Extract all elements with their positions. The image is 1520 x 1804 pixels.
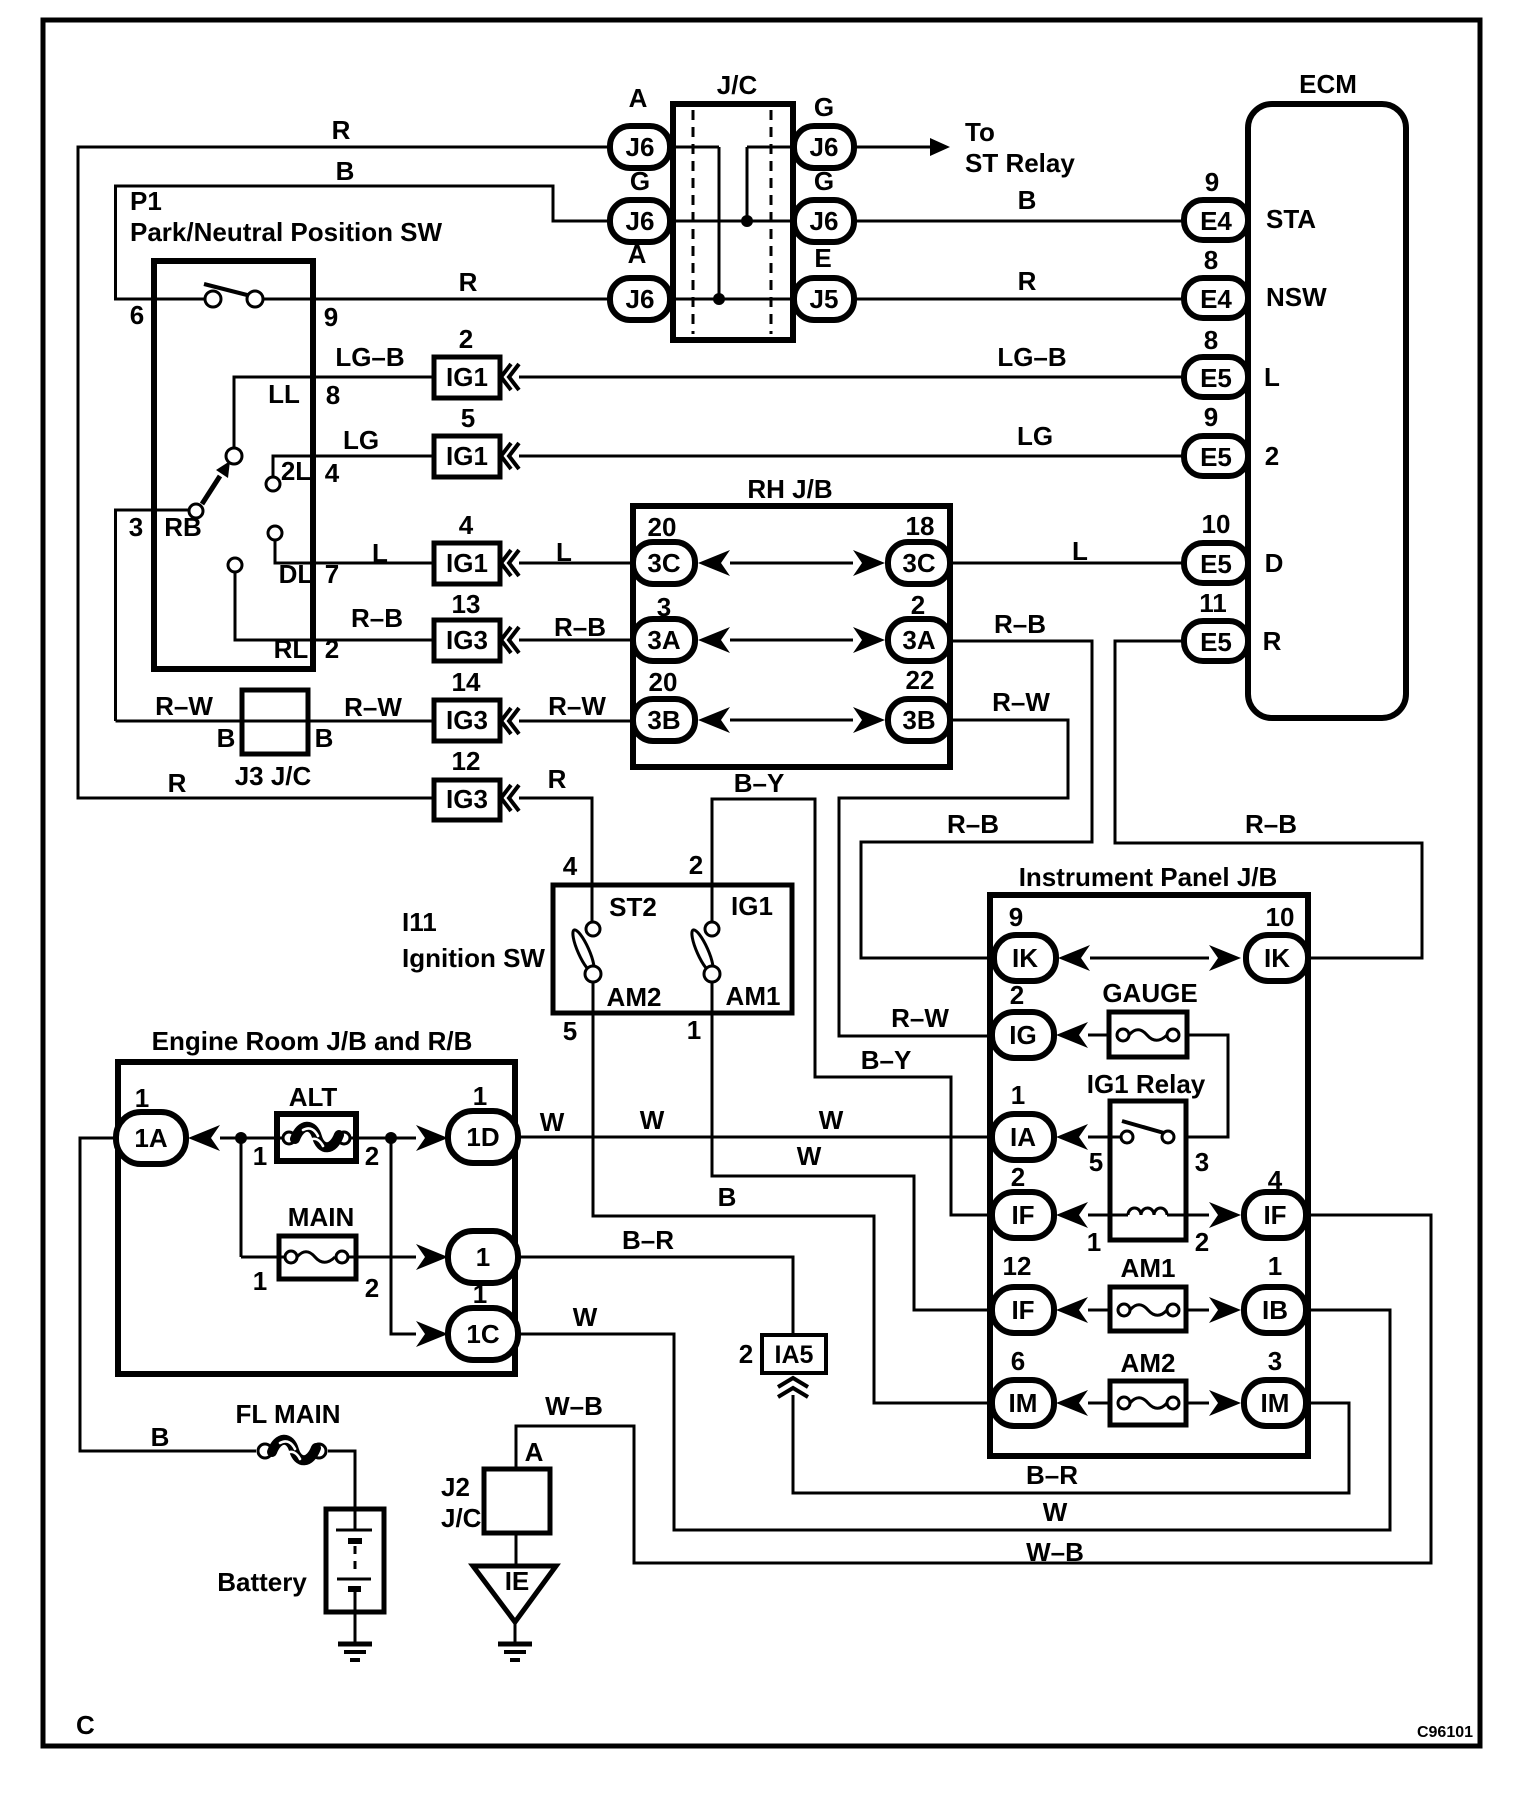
svg-text:J6: J6 (810, 132, 839, 162)
ground battery (338, 1644, 372, 1660)
wire R-W: 3B to IG (839, 687, 1068, 1036)
svg-text:ST Relay: ST Relay (965, 148, 1075, 178)
svg-text:2: 2 (911, 590, 925, 620)
svg-text:J/C: J/C (717, 70, 758, 100)
svg-text:B: B (336, 156, 355, 186)
svg-text:R–W: R–W (155, 691, 213, 721)
wire ALT to 1D (350, 1137, 416, 1140)
svg-text:P1: P1 (130, 186, 162, 216)
svg-text:IE: IE (505, 1566, 530, 1596)
wire R row from IG3 12 to ignition ST2 (519, 798, 592, 922)
svg-text:B: B (151, 1422, 170, 1452)
svg-text:1D: 1D (466, 1122, 499, 1152)
connector J5 (E) right row3 (794, 243, 854, 320)
wire R-B: 3A to IK 9 (861, 609, 1092, 958)
svg-text:J/C: J/C (441, 1503, 482, 1533)
wire B: AM2 to IM 6 (563, 982, 992, 1403)
svg-text:2: 2 (459, 324, 473, 354)
svg-text:8: 8 (1204, 245, 1218, 275)
svg-text:ALT: ALT (289, 1082, 338, 1112)
connector 3A (3) left (633, 592, 695, 661)
svg-text:LG–B: LG–B (997, 342, 1066, 372)
wire R: J5 E to E4 NSW (854, 266, 1184, 299)
svg-text:W–B: W–B (545, 1391, 603, 1421)
svg-text:LG: LG (1017, 421, 1053, 451)
svg-text:12: 12 (452, 746, 481, 776)
svg-text:10: 10 (1266, 902, 1295, 932)
svg-text:2: 2 (1010, 980, 1024, 1010)
svg-text:Instrument Panel J/B: Instrument Panel J/B (1019, 862, 1278, 892)
svg-text:C96101: C96101 (1417, 1724, 1473, 1741)
svg-text:IA: IA (1010, 1122, 1036, 1152)
connector J6 (G) right row2 (794, 166, 854, 242)
connector J6 (G) left row2 (610, 166, 670, 242)
svg-text:2: 2 (1011, 1162, 1025, 1192)
svg-text:NSW: NSW (1266, 282, 1327, 312)
svg-text:J6: J6 (810, 206, 839, 236)
arrow left IF12 row (1056, 1297, 1088, 1323)
svg-text:B–Y: B–Y (861, 1045, 912, 1075)
svg-text:IA5: IA5 (775, 1341, 814, 1369)
svg-text:Engine Room J/B and R/B: Engine Room J/B and R/B (152, 1026, 473, 1056)
svg-text:IG1: IG1 (446, 548, 488, 578)
wire W: 1D to IA (518, 1105, 992, 1137)
wire IM to AM2 fuse (1088, 1402, 1110, 1405)
svg-text:ST2: ST2 (609, 892, 657, 922)
svg-text:R–B: R–B (994, 609, 1046, 639)
svg-text:W: W (1043, 1497, 1068, 1527)
svg-text:R–W: R–W (891, 1003, 949, 1033)
svg-text:LG–B: LG–B (335, 342, 404, 372)
svg-text:W–B: W–B (1026, 1537, 1084, 1567)
svg-text:1: 1 (473, 1081, 487, 1111)
svg-text:4: 4 (459, 510, 474, 540)
connector 1A (1) (116, 1083, 186, 1164)
junction connector J/C box (673, 70, 793, 340)
svg-text:R: R (548, 764, 567, 794)
svg-text:R–B: R–B (1245, 809, 1297, 839)
connector E5 (10) D (1184, 509, 1283, 583)
svg-text:AM1: AM1 (1121, 1253, 1176, 1283)
svg-text:RH J/B: RH J/B (747, 474, 832, 504)
arrow right 3B row (853, 707, 885, 733)
arrow left IA row (1056, 1124, 1088, 1150)
connector E5 (8) L (1184, 325, 1280, 397)
wire 1A to FL MAIN and battery (80, 1138, 256, 1452)
svg-text:R: R (1263, 626, 1282, 656)
svg-text:2: 2 (1265, 441, 1279, 471)
svg-text:B–R: B–R (622, 1225, 674, 1255)
connector IG1 (4) (313, 510, 572, 584)
wire W: 1C to IB (518, 1302, 1390, 1530)
svg-text:AM1: AM1 (726, 981, 781, 1011)
svg-text:IF: IF (1263, 1200, 1286, 1230)
P1 contact DL (268, 526, 339, 589)
svg-text:11: 11 (1199, 588, 1227, 618)
connector IM (6) (992, 1346, 1054, 1426)
wire 1A row to ALT fuse (220, 1137, 283, 1140)
svg-text:RL: RL (274, 634, 309, 664)
connector J6 (G) right row1 to ST relay (794, 92, 854, 168)
instrument panel J/B box (990, 862, 1308, 1456)
connector 3B (22) right (888, 665, 950, 741)
connector 3C (18) right (888, 511, 950, 584)
svg-text:2: 2 (1195, 1227, 1209, 1257)
ECM box (1248, 69, 1406, 718)
svg-text:R–W: R–W (548, 691, 606, 721)
svg-text:LL: LL (268, 379, 300, 409)
P1 contact 2L (266, 456, 340, 491)
svg-text:C: C (76, 1710, 95, 1740)
wire MAIN row (241, 1256, 285, 1259)
svg-text:E4: E4 (1200, 284, 1232, 314)
svg-text:GAUGE: GAUGE (1102, 978, 1197, 1008)
svg-text:G: G (630, 166, 650, 196)
connector 1D (1) (448, 1081, 518, 1163)
svg-text:G: G (814, 166, 834, 196)
svg-text:FL MAIN: FL MAIN (236, 1399, 341, 1429)
svg-text:W: W (819, 1105, 844, 1135)
svg-text:L: L (1264, 362, 1280, 392)
svg-text:20: 20 (648, 512, 677, 542)
P1 contact RL (228, 558, 339, 664)
wire IE to ground (514, 1622, 517, 1644)
wire IK internal (1090, 957, 1209, 960)
connector IA5 (2) (739, 1335, 826, 1397)
connector IB (1) (1244, 1251, 1306, 1333)
svg-text:4: 4 (325, 458, 340, 488)
RH J/B box (633, 474, 950, 767)
fusible link ALT (253, 1082, 379, 1171)
wire 3B internal (730, 719, 853, 722)
connector IK (10) (1246, 902, 1308, 981)
svg-text:8: 8 (326, 380, 340, 410)
svg-text:1: 1 (473, 1279, 487, 1309)
svg-text:IK: IK (1264, 943, 1290, 973)
svg-text:1: 1 (1087, 1227, 1101, 1257)
IG1 contact (705, 891, 773, 936)
relay coil (1087, 1208, 1209, 1257)
arrow left IK row (1058, 945, 1090, 971)
svg-text:5: 5 (1089, 1147, 1103, 1177)
arrow right 1C (416, 1321, 448, 1347)
P1 NSW switch contacts (130, 284, 338, 332)
svg-text:IG3: IG3 (446, 705, 488, 735)
ground connector IE triangle (473, 1566, 556, 1622)
svg-text:W: W (797, 1141, 822, 1171)
svg-text:J6: J6 (626, 132, 655, 162)
svg-text:IG3: IG3 (446, 784, 488, 814)
connector E4 (9) STA (1184, 167, 1316, 240)
fuse AM1 (1110, 1253, 1186, 1331)
svg-text:3: 3 (657, 592, 671, 622)
P1 rotary selector arrow RB (116, 461, 231, 721)
connector IF (12) (992, 1251, 1054, 1333)
wire row3: P1 pin 9 to J6 A (262, 298, 610, 301)
wire J2 to IE ground (515, 1533, 518, 1566)
wire down from ALT node to MAIN (240, 1138, 243, 1257)
connector 1C (1) (448, 1279, 518, 1360)
svg-text:3: 3 (1268, 1346, 1282, 1376)
connector IF (2) (992, 1162, 1054, 1238)
fuse AM2 (1110, 1348, 1186, 1425)
svg-text:1C: 1C (466, 1319, 499, 1349)
svg-text:Ignition SW: Ignition SW (402, 943, 545, 973)
svg-text:G: G (814, 92, 834, 122)
svg-text:R: R (1018, 266, 1037, 296)
svg-text:9: 9 (1205, 167, 1219, 197)
junction node (385, 1132, 397, 1144)
junction node (235, 1132, 247, 1144)
wire R-B: E5 R to IK 10 (1115, 641, 1422, 958)
svg-text:E5: E5 (1200, 442, 1232, 472)
wire AM2 to IM right (1186, 1402, 1209, 1405)
svg-text:IG1: IG1 (731, 891, 773, 921)
svg-text:14: 14 (452, 667, 481, 697)
arrow left IG row (1056, 1022, 1088, 1048)
svg-text:2: 2 (689, 850, 703, 880)
svg-text:J5: J5 (810, 284, 839, 314)
arrow right 3C row (853, 550, 885, 576)
arrow left IF2 row (1056, 1202, 1088, 1228)
wire B top: J6 G row to P1 pin 6 (116, 156, 611, 299)
AM1 pivot contact (704, 966, 780, 1011)
svg-text:A: A (525, 1437, 544, 1467)
svg-text:L: L (1072, 536, 1088, 566)
svg-text:2L: 2L (281, 456, 311, 486)
svg-text:L: L (372, 538, 388, 568)
wire B: J6 G right to E4 STA (854, 185, 1184, 221)
connector IG3 (14) (434, 667, 606, 741)
svg-text:9: 9 (324, 302, 338, 332)
svg-text:R–B: R–B (351, 603, 403, 633)
svg-text:4: 4 (1268, 1165, 1283, 1195)
svg-text:5: 5 (563, 1016, 577, 1046)
ground IE (498, 1644, 532, 1660)
connector 3B (20) left (633, 667, 695, 741)
ST2 contact (586, 892, 657, 936)
svg-text:1: 1 (253, 1141, 267, 1171)
svg-text:2: 2 (365, 1273, 379, 1303)
svg-text:E5: E5 (1200, 363, 1232, 393)
svg-text:B: B (718, 1182, 737, 1212)
svg-text:A: A (629, 83, 648, 113)
svg-text:E: E (814, 243, 831, 273)
svg-text:IF: IF (1011, 1295, 1034, 1325)
svg-text:W: W (540, 1107, 565, 1137)
svg-text:ECM: ECM (1299, 69, 1357, 99)
svg-text:5: 5 (461, 403, 475, 433)
svg-text:I11: I11 (402, 907, 437, 937)
svg-text:B: B (1018, 185, 1037, 215)
engine room J/B box (118, 1026, 515, 1374)
svg-text:2: 2 (739, 1339, 753, 1369)
svg-text:IK: IK (1012, 943, 1038, 973)
IG1/AM1 lever (688, 928, 717, 974)
svg-text:3B: 3B (902, 705, 935, 735)
svg-text:B: B (217, 723, 236, 753)
svg-text:10: 10 (1202, 509, 1231, 539)
arrow left 3C row (698, 550, 730, 576)
svg-text:3A: 3A (647, 625, 680, 655)
connector IG (2) (992, 980, 1054, 1058)
svg-text:1A: 1A (134, 1123, 167, 1153)
svg-text:IG1: IG1 (446, 441, 488, 471)
svg-text:13: 13 (452, 589, 481, 619)
svg-text:R: R (332, 115, 351, 145)
svg-text:MAIN: MAIN (288, 1202, 354, 1232)
arrow left 3A row (698, 627, 730, 653)
svg-text:IG3: IG3 (446, 625, 488, 655)
svg-text:DL: DL (279, 559, 314, 589)
arrow right IM3 row (1209, 1390, 1241, 1416)
connector 3A (2) right (888, 590, 950, 661)
wire IA to relay (1088, 1136, 1121, 1139)
svg-text:B–R: B–R (1026, 1460, 1078, 1490)
svg-text:RB: RB (164, 512, 202, 542)
svg-text:1: 1 (687, 1015, 701, 1045)
svg-text:8: 8 (1204, 325, 1218, 355)
svg-text:J2: J2 (441, 1472, 470, 1502)
svg-text:J3 J/C: J3 J/C (235, 761, 312, 791)
arrow right 1D (416, 1125, 448, 1151)
wire 3A internal (730, 639, 853, 642)
connector E5 (11) R (1184, 588, 1282, 661)
svg-text:To: To (965, 117, 995, 147)
wire AM1 to IB (1186, 1309, 1209, 1312)
connector IA (1) (992, 1080, 1054, 1160)
svg-text:R–B: R–B (554, 612, 606, 642)
svg-text:LG: LG (343, 425, 379, 455)
svg-text:E5: E5 (1200, 627, 1232, 657)
svg-text:STA: STA (1266, 204, 1316, 234)
svg-text:3C: 3C (647, 548, 680, 578)
svg-text:A: A (628, 239, 647, 269)
svg-text:E5: E5 (1200, 549, 1232, 579)
arrow right 3A row (853, 627, 885, 653)
svg-text:9: 9 (1009, 902, 1023, 932)
wire LG row to E5 2 (519, 421, 1184, 456)
svg-text:4: 4 (563, 851, 578, 881)
svg-text:E4: E4 (1200, 206, 1232, 236)
svg-text:B–Y: B–Y (734, 768, 785, 798)
svg-text:22: 22 (906, 665, 935, 695)
connector IG1 (2) (313, 324, 519, 398)
connector E5 (9) 2 (1184, 402, 1279, 476)
svg-text:AM2: AM2 (1121, 1348, 1176, 1378)
connector IM (3) (1244, 1346, 1306, 1426)
wire B-Y: ignition IG1 to IF 2 (689, 768, 992, 1215)
wire W: AM1 to IF 12 (687, 982, 992, 1310)
connector IK (9) (994, 902, 1056, 981)
svg-text:IF: IF (1011, 1200, 1034, 1230)
J/C internal wires (670, 147, 794, 305)
svg-text:IB: IB (1262, 1295, 1288, 1325)
fuse MAIN (253, 1202, 379, 1303)
wire R-W row to RH J/B 3B (519, 720, 633, 723)
wire W-B: IF 4 to J2 J/C (516, 1215, 1431, 1567)
arrow right IK row (1209, 945, 1241, 971)
svg-text:R–W: R–W (344, 692, 402, 722)
svg-text:W: W (640, 1105, 665, 1135)
svg-text:Park/Neutral Position SW: Park/Neutral Position SW (130, 217, 443, 247)
wire MAIN to oval 1 (348, 1256, 416, 1259)
svg-text:1: 1 (1268, 1251, 1282, 1281)
svg-text:6: 6 (130, 300, 144, 330)
wire B-R: oval 1 to IA5 to IM 3 (518, 1225, 1349, 1493)
connector IG1 (5) (313, 403, 519, 477)
wire R top: J6 A to left vertical and down to IG3 12 row (78, 115, 610, 798)
wire 3C internal (730, 562, 853, 565)
wire to ST Relay with arrow (854, 117, 1075, 178)
AM2 pivot contact (585, 966, 661, 1012)
battery (217, 1509, 384, 1643)
wire L row to RH J/B 3C (519, 562, 633, 565)
svg-text:3C: 3C (902, 548, 935, 578)
svg-text:IM: IM (1261, 1388, 1290, 1418)
svg-text:J6: J6 (626, 284, 655, 314)
svg-text:D: D (1265, 548, 1284, 578)
connector J6 (A) left row3 (610, 239, 670, 320)
svg-text:1: 1 (1011, 1080, 1025, 1110)
connector E4 (8) NSW (1184, 245, 1327, 318)
ignition switch box I11 (402, 885, 792, 1013)
svg-text:B: B (315, 723, 334, 753)
svg-text:3B: 3B (647, 705, 680, 735)
svg-text:12: 12 (1003, 1251, 1032, 1281)
fuse GAUGE (1102, 978, 1197, 1057)
wire LG-B row to E5 L (519, 342, 1184, 377)
arrow left 1A (188, 1125, 220, 1151)
connector J6 (A) left row1 (610, 83, 670, 168)
connector 3C (20) left (633, 512, 695, 584)
connector IG3 (13) (313, 589, 606, 661)
svg-text:AM2: AM2 (607, 982, 662, 1012)
svg-text:W: W (573, 1302, 598, 1332)
svg-text:IG1: IG1 (446, 362, 488, 392)
wire L: 3C to E5 D (950, 536, 1184, 566)
arrow left IM row (1056, 1390, 1088, 1416)
arrow right oval 1 (416, 1244, 448, 1270)
P1 box (130, 186, 443, 669)
svg-text:1: 1 (135, 1083, 149, 1113)
svg-text:18: 18 (906, 511, 935, 541)
relay switch contacts (1089, 1121, 1209, 1177)
connector IF (4) (1244, 1165, 1306, 1238)
svg-text:1: 1 (476, 1242, 490, 1272)
arrow left 3B row (698, 707, 730, 733)
fusible link FL MAIN (236, 1399, 341, 1460)
junction connector J2 J/C (441, 1469, 550, 1533)
svg-text:J6: J6 (626, 206, 655, 236)
wire IG to GAUGE (1088, 1034, 1109, 1037)
arrow right IB row (1209, 1297, 1241, 1323)
wire FL MAIN to battery (328, 1451, 355, 1530)
svg-text:IG1 Relay: IG1 Relay (1087, 1069, 1206, 1099)
connector 1 (MAIN out) (448, 1231, 518, 1283)
P1 rotary common LL (226, 377, 340, 464)
wire IF12 to AM1 fuse (1088, 1309, 1110, 1312)
arrow right IF4 row (1209, 1202, 1241, 1228)
connector IG3 (12) (434, 746, 567, 820)
svg-text:R–W: R–W (992, 687, 1050, 717)
wire GAUGE to relay contact 3 (1186, 1035, 1228, 1137)
svg-text:IM: IM (1009, 1388, 1038, 1418)
svg-text:3: 3 (129, 512, 143, 542)
svg-text:R–B: R–B (947, 809, 999, 839)
svg-text:R: R (459, 267, 478, 297)
svg-text:Battery: Battery (217, 1567, 307, 1597)
